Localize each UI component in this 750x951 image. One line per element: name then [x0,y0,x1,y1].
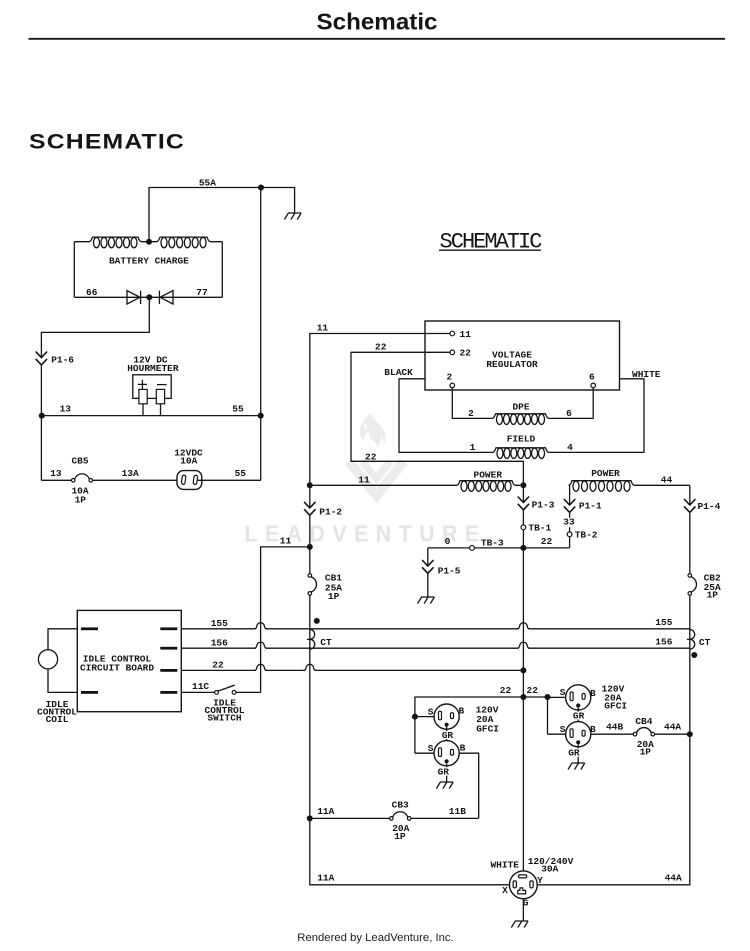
svg-text:POWER: POWER [591,468,620,479]
winding FIELD [492,448,549,453]
current transformer CT left [307,630,315,650]
wire S feed vertical left pair [414,717,416,754]
svg-text:GR: GR [438,766,450,777]
wire to lower-right outlet S [548,733,566,735]
receptacle Y slot (right) [530,881,533,888]
svg-text:WHITE: WHITE [490,859,519,870]
ground (right GFCI pair) [568,763,585,770]
svg-text:P1-1: P1-1 [579,501,602,512]
wire branch 11 to idle control switch [261,547,310,693]
watermark LeadVenture flame logo [349,413,404,496]
svg-text:11: 11 [280,535,292,546]
svg-text:P1-3: P1-3 [532,499,555,510]
battery charge center-tap junction [146,239,152,245]
GFCI outlet U4 (lower left) [434,741,459,766]
wire 22 to left GFCI pair [415,697,548,717]
wire to lower-left outlet S [415,752,434,754]
wire 155 to CT left to right CT [265,628,518,630]
idle control coil [38,650,57,669]
winding DPE [492,414,549,419]
circuit breaker CB5 [71,479,75,483]
junction node TB rail / TB-3 wire [520,545,526,551]
wire U2 GR to ground [577,744,579,763]
svg-text:11: 11 [358,475,370,486]
wire BLACK regulator to field [399,379,492,453]
board terminal bar right 11C [160,691,177,694]
wire 22 regulator to power junction [351,352,523,485]
wire 156 middle [265,647,518,649]
junction node right GFCI S feed [545,694,551,700]
svg-text:P1-2: P1-2 [319,507,342,518]
svg-text:Y: Y [537,875,543,886]
hourmeter lead wires to bus [142,404,144,416]
svg-text:2: 2 [468,408,474,419]
wire coil top to board [48,629,77,650]
wire 155 to right CT [528,628,690,630]
svg-text:POWER: POWER [474,469,503,480]
wire 22 board to node [181,669,256,671]
wire 55A top from battery coil center-tap to ground branch [149,188,295,242]
svg-text:P1-6: P1-6 [51,355,74,366]
svg-text:22: 22 [460,348,472,359]
svg-text:X: X [502,885,508,896]
svg-text:0: 0 [445,536,451,547]
svg-text:156: 156 [655,637,672,648]
junction node 11A [307,815,313,821]
svg-text:11: 11 [460,329,472,340]
wire P1-1 up to power coil [569,485,571,505]
svg-text:33: 33 [563,517,575,528]
wire TB rail down to 120/240V receptacle [522,697,524,871]
svg-text:S: S [560,687,566,698]
board terminal bar left lower [81,691,98,694]
hourmeter bus wire 13-55 [42,415,261,417]
wire CB3 to riser [411,817,479,819]
svg-text:P1-5: P1-5 [438,565,461,576]
svg-text:CT: CT [699,637,711,648]
junction node left GFCI S feed [412,714,418,720]
regulator pin 22 terminal [450,350,455,355]
svg-text:22: 22 [375,342,387,353]
svg-text:1P: 1P [328,591,340,602]
circuit breaker CB1 [308,574,312,578]
svg-text:TB-2: TB-2 [575,530,598,541]
circuit breaker CB3 [390,817,394,821]
svg-text:TB-3: TB-3 [481,537,504,548]
wire 11 regulator to left rail [310,334,450,486]
idle control circuit board box [77,610,181,711]
svg-text:GR: GR [568,748,580,759]
wire 156 hop over TB rail [517,642,530,648]
svg-text:S: S [560,724,566,735]
svg-text:GR: GR [573,711,585,722]
svg-text:CB5: CB5 [71,455,88,466]
svg-text:44: 44 [661,474,673,485]
svg-text:1P: 1P [75,495,87,506]
wire CB1 to CT left [309,595,311,629]
svg-text:13: 13 [50,468,62,479]
svg-text:11: 11 [317,323,329,334]
terminal TB-2 [567,532,572,537]
svg-text:DPE: DPE [512,401,529,412]
svg-text:HOURMETER: HOURMETER [127,363,179,374]
wire TB-1 to node 22 [522,530,524,548]
svg-text:11B: 11B [449,806,466,817]
connector P1-3 [518,497,529,510]
wire S feed vertical right pair [547,697,549,734]
junction node 11 / CB1 [307,544,313,550]
connector P1-6 [36,352,47,365]
svg-text:Rendered by LeadVenture, Inc.: Rendered by LeadVenture, Inc. [297,932,453,944]
hourmeter left prong [139,389,147,403]
wire 33 to P1-1 [569,512,571,517]
wire node down to P1-3 [522,485,524,502]
battery charge winding right half [149,237,222,242]
wire pin2 to DPE [452,388,492,419]
svg-text:CB3: CB3 [392,799,409,810]
svg-text:REGULATOR: REGULATOR [486,359,538,370]
junction node 55A / right rail [258,185,264,191]
wire 155 board to left rail crossing [181,628,256,630]
junction node 22 on TB rail [520,667,526,673]
wire 13 to CB5 [41,479,71,481]
wire CB4 to 44A node [655,733,690,735]
svg-text:55A: 55A [199,177,216,188]
wire 22 to TB rail node [315,669,523,671]
wire 55 from 12VDC plug to right rail [198,479,261,481]
svg-text:COIL: COIL [46,714,69,725]
wire 44 corner down to P1-4 [689,485,691,505]
svg-text:SWITCH: SWITCH [207,712,242,723]
svg-text:2: 2 [446,371,452,382]
svg-text:22: 22 [541,536,553,547]
svg-text:1P: 1P [640,747,652,758]
wire switch to rail [236,691,261,693]
circuit breaker CB4 [633,732,637,736]
junction node on 22 GFCI wire [520,694,526,700]
svg-text:B: B [459,705,465,716]
receptacle 120/240V 30A body [509,871,537,899]
hourmeter right prong [156,389,164,403]
svg-text:CT: CT [320,637,332,648]
wire U3 GR to U4 [446,727,448,741]
svg-text:44B: 44B [606,722,623,733]
svg-text:B: B [590,724,596,735]
12VDC receptacle right prong [193,475,198,485]
wire 22 hop over switch rail [254,664,267,670]
wire node11 down to P1-2 [309,485,311,507]
junction node 44A [687,731,693,737]
svg-text:1P: 1P [707,589,719,600]
wire 156 board to crossing [181,647,256,649]
svg-text:11A: 11A [317,806,334,817]
svg-text:13: 13 [60,403,72,414]
svg-text:Schematic: Schematic [317,9,438,35]
hourmeter + terminal mark [138,383,147,385]
svg-text:6: 6 [566,408,572,419]
idle control switch blade [218,685,234,691]
svg-text:BLACK: BLACK [384,367,413,378]
wire up to TB-2 [569,537,571,548]
wire node55 down to 12VDC row [260,416,262,481]
svg-text:13A: 13A [122,468,139,479]
svg-text:S: S [428,743,434,754]
wire U2 B to CB4 [591,733,633,735]
wire node down to CB1 [309,547,311,574]
svg-text:30A: 30A [541,863,558,874]
svg-text:10A: 10A [180,455,197,466]
receptacle W slot (top) [519,875,527,878]
wire 155 hop over TB rail [517,623,530,629]
junction node 13 [39,413,45,419]
regulator pin 11 terminal [450,331,455,336]
terminal TB-3 [470,546,475,551]
wire WHITE regulator to field [549,379,645,453]
svg-text:GR: GR [442,730,454,741]
wire TB-3 horizontal [428,547,570,549]
idle control switch contacts [215,691,219,695]
wire P1-5 to ground [427,573,429,597]
svg-text:155: 155 [211,618,228,629]
receptacle G slot (bottom) [518,888,526,894]
wire 156 hop over switch rail [254,642,267,648]
svg-text:156: 156 [211,637,228,648]
svg-text:P1-4: P1-4 [698,501,721,512]
junction dot near CT left [314,618,320,624]
regulator pin 2 terminal [450,383,455,388]
wire 44A node down to bottom bus corner [689,734,691,885]
connector P1-1 [564,499,575,512]
wire to upper-left outlet S [415,716,434,718]
svg-text:11C: 11C [192,681,209,692]
receptacle X slot (left) [513,881,516,888]
wire U1 GR to U2 [577,708,579,722]
wire to upper-right outlet S [548,696,566,698]
wire P1-6 to node 13 [40,365,42,416]
terminal TB-1 [521,525,526,530]
connector P1-5 [422,560,433,573]
wire node13 down to CB5 row [40,416,42,481]
wire U4 B to CB3 riser [459,753,479,818]
wire CT right down to 44A node [689,648,691,734]
svg-text:GFCI: GFCI [604,700,627,711]
svg-text:SCHEMATIC: SCHEMATIC [29,131,185,154]
winding POWER left [310,481,524,486]
wire 11A node to CB3 [310,817,390,819]
svg-text:CB4: CB4 [635,716,652,727]
svg-text:GFCI: GFCI [476,723,499,734]
ground (P1-5) [418,597,435,604]
wire receptacle G to ground [522,899,524,921]
svg-text:BATTERY CHARGE: BATTERY CHARGE [109,256,189,267]
svg-text:1P: 1P [394,831,406,842]
ground (left GFCI pair) [436,782,453,789]
wire node22 down to GFCI wire [522,670,524,697]
junction between diodes [146,294,152,300]
junction node 55 [258,413,264,419]
svg-text:22: 22 [212,659,224,670]
GFCI outlet U3 (upper left) [434,704,459,729]
wire TB-2 up to 33 [569,527,571,532]
junction node 22 power-left right end [520,482,526,488]
wire 155 hop over switch rail [254,623,267,629]
diode 77 (anode right) [159,291,173,304]
GFCI outlet U2 (lower right) [566,722,591,747]
ground (top right) [284,213,301,220]
svg-text:B: B [460,742,466,753]
svg-text:22: 22 [527,685,539,696]
voltage regulator U-VR box [425,321,620,390]
wire 22 hop over CB1 rail [303,664,316,670]
svg-text:FIELD: FIELD [507,434,536,445]
wire U4 GR to ground [446,763,448,782]
connector P1-4 [684,499,695,512]
svg-text:CIRCUIT BOARD: CIRCUIT BOARD [80,663,154,674]
svg-text:4: 4 [567,442,573,453]
wire 13A CB5 to 12VDC plug [93,479,182,481]
svg-text:22: 22 [500,685,512,696]
regulator pin 6 terminal [591,383,596,388]
wire 156 to right CT [528,647,690,649]
wire P1-5 branch down [427,548,429,566]
wire coil bottom to board [48,669,77,693]
svg-text:22: 22 [365,451,377,462]
hourmeter U-HM box [133,375,171,399]
junction node 11 power-left [307,482,313,488]
svg-text:1: 1 [470,442,476,453]
junction dot near CT right [691,652,697,658]
wire TB rail down through 155/156 to node 22 [522,548,524,671]
battery charge winding left half [74,237,149,242]
wire P1-2 to node 11 lower [309,515,311,547]
battery charge box [73,242,75,298]
svg-text:6: 6 [589,371,595,382]
connector P1-2 [304,502,315,515]
diode 66 (anode left) [127,291,141,304]
wire from diode junction to P1-6 [41,297,149,357]
wire DPE to pin 6 [549,388,593,419]
svg-text:77: 77 [196,287,208,298]
12VDC receptacle left prong [181,475,186,485]
wire 11C board to switch [181,691,214,693]
circuit breaker CB2 [688,574,692,578]
board terminal bar left upper [81,627,98,630]
12VDC 10A receptacle body [177,471,202,490]
wire P1-3 to TB-1 [522,510,524,525]
header rule [29,38,726,40]
GFCI outlet U1 (upper right) [566,685,591,710]
wire right rail 55A-55 vertical [260,188,262,416]
svg-text:B: B [590,688,596,699]
svg-text:55: 55 [235,468,247,479]
svg-text:44A: 44A [664,722,681,733]
bottom bus wire 11A-44A [310,884,690,886]
wire 11A node down to bottom bus corner [309,818,311,885]
wire CB2 to CT right [689,595,691,629]
current transformer CT right [687,630,695,650]
svg-text:44A: 44A [665,873,682,884]
wire CT left down to 11A node [309,648,311,818]
svg-text:S: S [428,706,434,717]
board terminal bar right 156 [160,647,177,650]
svg-text:66: 66 [86,287,98,298]
winding POWER right [569,481,690,486]
wire P1-4 to CB2 [689,512,691,573]
svg-text:11A: 11A [317,873,334,884]
board terminal bar right 22 [160,669,177,672]
board terminal bar right 155 [160,627,177,630]
svg-text:155: 155 [655,617,672,628]
svg-text:TB-1: TB-1 [528,523,551,534]
svg-text:55: 55 [232,403,244,414]
ground (receptacle) [511,921,528,928]
hourmeter - terminal mark [157,384,167,386]
